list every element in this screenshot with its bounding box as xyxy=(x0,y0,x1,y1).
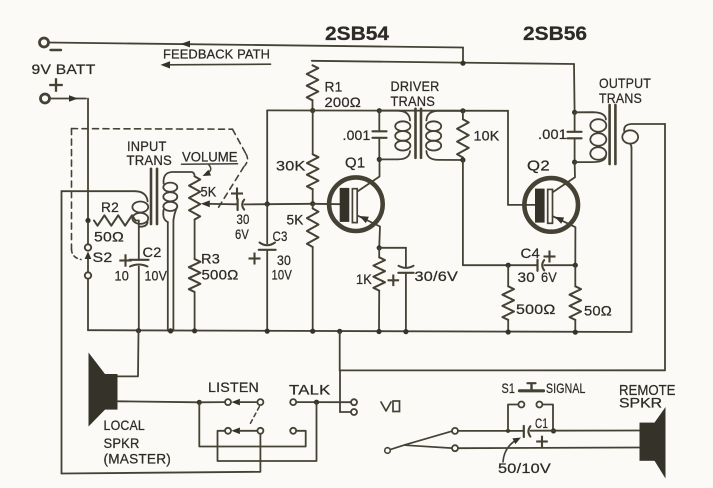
wire: wiper cap to Q1 base node xyxy=(244,203,312,206)
svg-text:LOCAL: LOCAL xyxy=(104,417,146,433)
wire: base node to 5K divider xyxy=(312,204,314,209)
svg-text:10K: 10K xyxy=(474,128,500,144)
wire: R1 bottom to bias line xyxy=(312,100,314,110)
TALK lower contact xyxy=(290,428,296,434)
resistor R1 200 ohm xyxy=(307,65,319,100)
junction dot bus / C2+speaker xyxy=(136,328,141,333)
upper wiper arm xyxy=(240,401,257,403)
feedback path underline arrowhead xyxy=(161,61,171,68)
svg-text:6V: 6V xyxy=(235,226,249,242)
wire: bypass branch down to cap xyxy=(405,248,407,267)
wire: C2 node down to C2 top plate xyxy=(138,227,140,260)
dashed outline top edge xyxy=(72,128,233,131)
remote plug upper terminal xyxy=(452,428,458,434)
svg-text:10V: 10V xyxy=(272,267,293,283)
wire: drop from line B corner to output transformer primary xyxy=(573,64,576,112)
wire: secondary bottom line b to ground bus xyxy=(172,220,174,331)
svg-text:2SB56: 2SB56 xyxy=(523,24,587,45)
junction dot Q2 collector node xyxy=(572,160,577,165)
battery plus sign xyxy=(49,84,63,86)
junction dot bus / remote feed xyxy=(337,329,342,334)
junction dot S1 branch right xyxy=(551,428,556,433)
wire: 1K bottom to ground bus xyxy=(378,291,380,332)
plug symbol sleeve xyxy=(393,401,400,412)
wire: feedback line from battery - to x=463 xyxy=(49,43,464,48)
svg-text:TRANS: TRANS xyxy=(127,153,173,168)
VOLUME underline xyxy=(182,163,238,166)
svg-text:5K: 5K xyxy=(201,184,217,200)
lower wiper arm xyxy=(240,430,257,432)
wire: R2 junction down to S2 xyxy=(87,222,89,244)
svg-text:TRANS: TRANS xyxy=(391,93,436,109)
wire: TALK upper contact to jack xyxy=(296,401,351,403)
Q1 emitter arrowhead (PNP) xyxy=(359,216,369,223)
output transformer secondary top lead xyxy=(624,124,665,133)
wire: secondary bottom line a to ground bus xyxy=(167,222,169,331)
svg-text:SPKR: SPKR xyxy=(619,395,662,411)
svg-text:INPUT: INPUT xyxy=(127,139,167,154)
LISTEN upper contact xyxy=(225,399,231,405)
input transformer primary loop 1 xyxy=(132,202,148,213)
junction dot Q1 collector node xyxy=(377,157,382,162)
wire: bias junction down to 30K xyxy=(312,111,314,155)
wire: return line up left edge xyxy=(61,191,63,473)
capacitor 30/6V bypass top plate (curved) xyxy=(399,266,414,268)
transistor Q1 base bar (filled) xyxy=(340,188,350,222)
capacitor C3 bottom plate xyxy=(259,249,276,251)
driver transformer primary top lead xyxy=(379,111,410,121)
50/10V callout arrowhead xyxy=(512,438,521,445)
lower pivot xyxy=(257,428,263,434)
plus sign (bypass cap polarity) xyxy=(388,279,400,281)
dashed outline lower diagonal xyxy=(218,167,245,210)
junction dot bus / C3 xyxy=(265,329,270,334)
resistor 30K xyxy=(307,154,319,189)
wire: ground bus xyxy=(88,330,632,332)
svg-text:10: 10 xyxy=(115,268,130,284)
battery negative terminal (9V BATT -) xyxy=(40,38,49,47)
junction dot 500 ohm top / C4 left xyxy=(506,263,511,268)
VOLUME callout arrowhead xyxy=(203,170,212,176)
driver transformer secondary top lead xyxy=(426,111,463,121)
svg-text:6V: 6V xyxy=(541,269,557,285)
driver transformer primary loop 1 xyxy=(395,121,410,131)
wire: node down to .001 top plate xyxy=(378,111,380,132)
LISTEN lower contact xyxy=(225,428,231,434)
plus sign (C4 polarity) xyxy=(544,255,556,257)
wire: emitter line (10K bottom run to C4 and Q2 emitter) xyxy=(463,264,537,266)
junction dot Q2 emitter node / 50 ohm top xyxy=(573,263,578,268)
Q1 emitter lead xyxy=(357,216,380,248)
wire: 50 ohm bottom to ground bus xyxy=(574,320,576,332)
pot wiper arrowhead xyxy=(201,200,210,207)
wire: right edge vertical (output secondary to remote line) xyxy=(664,124,666,370)
input transformer secondary loop 3 xyxy=(163,202,177,211)
switch S2 bottom contact xyxy=(85,272,91,278)
svg-text:.001: .001 xyxy=(538,126,567,142)
plus sign (C1 polarity) xyxy=(536,440,548,442)
wire: base node to Q1 base xyxy=(313,203,340,205)
output transformer secondary bottom lead xyxy=(630,144,631,148)
svg-text:30K: 30K xyxy=(276,158,306,174)
wire: supply rail from R1 top to output transformer xyxy=(312,61,574,64)
capacitor .001 (output) top plate xyxy=(568,131,582,133)
svg-text:R2: R2 xyxy=(101,199,119,215)
svg-text:30: 30 xyxy=(518,269,536,285)
wire: battery + to corner xyxy=(50,98,87,100)
svg-text:50Ω: 50Ω xyxy=(584,303,612,319)
wire: lower pivot to return line xyxy=(62,434,261,474)
svg-text:OUTPUT: OUTPUT xyxy=(599,75,651,91)
remote plug fork upper xyxy=(405,431,452,445)
output transformer core bars xyxy=(608,105,611,164)
resistor 50 ohm (Q2) xyxy=(570,286,582,320)
wire: 5K divider bottom to ground bus xyxy=(312,247,314,331)
wire: C3 bottom plate to ground bus xyxy=(266,250,268,331)
transistor Q2 inner bar (open) xyxy=(548,189,553,223)
transistor Q2 circle xyxy=(524,178,578,232)
wire: remote lower line xyxy=(458,447,640,450)
driver transformer core bars xyxy=(414,109,417,158)
wire: bypass cap to ground bus xyxy=(405,273,407,332)
switch S2 blade xyxy=(87,256,89,273)
junction dot 10K bottom / driver secondary bottom xyxy=(460,157,465,162)
svg-text:30/6V: 30/6V xyxy=(415,268,459,284)
wire: node down to right .001 top plate xyxy=(574,112,576,132)
capacitor C1 right plate (curved) xyxy=(528,426,530,436)
wire: 500 ohm top lead xyxy=(507,265,509,286)
jack upper terminal xyxy=(351,399,357,405)
wire: S2 to ground bus left end xyxy=(87,279,89,330)
svg-text:C2: C2 xyxy=(143,244,162,260)
remote plug lower terminal xyxy=(452,445,458,451)
wire: bias line (R1 bottom to Q2 base corner) xyxy=(267,109,508,111)
junction dot R1 / bias line xyxy=(310,108,315,113)
svg-text:(MASTER): (MASTER) xyxy=(104,451,172,467)
junction dot bus / 50 ohm xyxy=(573,330,578,335)
wire: C3 branch down to C3 top plate xyxy=(266,204,268,244)
driver transformer secondary bottom lead xyxy=(426,151,463,160)
50/10V callout arrow line xyxy=(503,440,517,463)
wire: drop from feedback line to supply line B xyxy=(462,48,464,64)
remote plug tail circle xyxy=(385,448,391,454)
dashed outline curve to S2 xyxy=(72,249,82,260)
capacitor 30/6V wiper left plate xyxy=(237,199,239,210)
svg-text:30: 30 xyxy=(237,211,250,227)
svg-text:Q2: Q2 xyxy=(527,159,550,175)
junction dot bus / R3 xyxy=(192,328,197,333)
capacitor C3 top plate (curved) xyxy=(260,243,276,246)
transistor Q1 circle xyxy=(329,177,383,231)
svg-text:TALK: TALK xyxy=(289,382,331,398)
dashed outline point arc xyxy=(245,154,248,166)
resistor 10K xyxy=(457,119,469,157)
remote speaker cone (filled) xyxy=(655,407,666,479)
resistor 500 ohm (Q2) xyxy=(502,286,514,320)
junction dot speaker line / talk-lower-link xyxy=(197,400,202,405)
input transformer secondary top lead xyxy=(164,172,195,184)
upper wiper arrowhead xyxy=(231,399,240,406)
wire: bias line corner down to wiper line xyxy=(266,110,268,204)
resistor 5K (divider) xyxy=(307,209,319,248)
capacitor C1 left plate xyxy=(523,426,525,437)
svg-text:S1: S1 xyxy=(502,380,516,396)
svg-text:200Ω: 200Ω xyxy=(325,94,362,110)
Q2 emitter lead xyxy=(553,216,576,265)
feedback path underline arrow line xyxy=(168,63,271,66)
wire: bus down to local speaker top terminal xyxy=(118,331,139,377)
input transformer primary bottom lead xyxy=(139,222,148,227)
wire: output secondary bottom to ground bus corner xyxy=(631,148,633,332)
junction dot bias line / .001 / driver primary top xyxy=(377,108,382,113)
capacitor .001 (driver) top plate xyxy=(373,130,387,132)
wire: pot bottom to R3 xyxy=(194,220,196,260)
pushbutton S1 cap xyxy=(528,382,536,384)
pushbutton S1 bar xyxy=(520,389,544,392)
wire: remote line down to jack xyxy=(339,370,341,412)
svg-text:2SB54: 2SB54 xyxy=(325,24,389,45)
wire: bias line corner down to Q2 base xyxy=(507,111,509,205)
S1 branch right riser xyxy=(542,405,553,431)
pushbutton S1 stem xyxy=(530,384,532,390)
TALK upper contact xyxy=(290,399,296,405)
svg-text:R1: R1 xyxy=(325,79,343,95)
svg-text:500Ω: 500Ω xyxy=(516,301,556,317)
input transformer secondary loop 1 xyxy=(163,183,177,192)
wire: .001 bottom plate to collector node xyxy=(378,138,380,160)
wire: 10K bottom down to emitter line xyxy=(462,160,464,265)
remote speaker driver (filled) xyxy=(640,423,655,461)
svg-text:S2: S2 xyxy=(93,249,113,265)
capacitor C4 left plate xyxy=(536,260,538,271)
svg-text:C4: C4 xyxy=(521,245,541,261)
plus sign (C3 polarity) xyxy=(249,257,261,259)
S1 left contact xyxy=(518,402,524,408)
input transformer secondary loop 2 xyxy=(163,192,177,201)
S1 right contact xyxy=(536,402,542,408)
svg-text:VOLUME: VOLUME xyxy=(182,150,238,165)
input transformer secondary bottom lead a xyxy=(163,210,168,222)
resistor R3 500 ohm xyxy=(189,259,201,292)
junction dot Q1 emitter / 1K / bypass cap xyxy=(377,245,382,250)
wire: TALK lower contact link to speaker line xyxy=(199,402,305,446)
battery positive terminal (9V BATT +) xyxy=(41,94,50,103)
driver transformer primary loop 3 xyxy=(395,141,410,151)
wire: C2 bottom plate to ground bus xyxy=(138,267,140,331)
svg-text:DRIVER: DRIVER xyxy=(391,78,440,94)
wire: C4 right plate to Q2 emitter node xyxy=(544,264,575,266)
wire: bus drop to remote line xyxy=(339,331,341,370)
Q2 emitter arrowhead (PNP) xyxy=(555,217,565,224)
transistor Q2 base bar (filled) xyxy=(535,189,545,223)
lower wiper arrowhead xyxy=(231,428,240,435)
svg-text:10V: 10V xyxy=(145,268,168,284)
arrowhead on feedback wire (points left) xyxy=(181,41,191,48)
wire: local speaker bottom terminal to LISTEN switch xyxy=(118,401,200,402)
junction dot supply drop / .001 / output primary top xyxy=(572,110,577,115)
junction dot at R2 left xyxy=(85,218,90,223)
wire: emitter node to 1K xyxy=(378,248,380,257)
svg-text:FEEDBACK PATH: FEEDBACK PATH xyxy=(163,47,270,62)
wire: remote upper line (to C1) xyxy=(458,430,523,432)
capacitor C4 right plate (curved) xyxy=(542,260,544,270)
local speaker cone (filled) xyxy=(89,353,106,427)
svg-text:50Ω: 50Ω xyxy=(94,229,124,245)
junction: S1 branch left xyxy=(506,429,510,433)
input transformer secondary bottom lead b xyxy=(173,209,176,220)
wire: 50 ohm top lead xyxy=(574,265,576,286)
svg-text:TRANS: TRANS xyxy=(599,90,642,106)
output transformer secondary loop xyxy=(622,130,638,143)
wire: remote line to right edge xyxy=(340,369,665,371)
svg-text:C1: C1 xyxy=(535,415,548,431)
wire: C1 to remote speaker top xyxy=(531,430,640,432)
Q1 collector lead xyxy=(357,159,379,191)
svg-text:SPKR: SPKR xyxy=(104,435,140,451)
capacitor 30/6V bypass bottom plate xyxy=(398,272,413,274)
mechanical link (dashed) xyxy=(249,407,259,427)
driver transformer primary loop 2 xyxy=(395,131,410,141)
dashed outline left edge xyxy=(71,129,73,249)
junction dot bias line / 10K top xyxy=(460,108,465,113)
svg-text:5K: 5K xyxy=(287,212,304,228)
wire: 30K bottom to base node xyxy=(312,189,314,203)
svg-text:R3: R3 xyxy=(201,250,220,266)
capacitor 30/6V wiper right plate (curved) xyxy=(242,200,244,210)
svg-text:500Ω: 500Ω xyxy=(202,267,239,283)
wire: down from battery + corner to R2 xyxy=(87,99,89,221)
input transformer core bars xyxy=(150,169,153,224)
wire: right .001 bottom plate to Q2 collector node xyxy=(574,138,576,162)
svg-text:Q1: Q1 xyxy=(345,156,366,172)
junction dot bus / 5K divider xyxy=(310,329,315,334)
junction dot bus / input secondary xyxy=(168,328,173,333)
switch S2 top contact xyxy=(85,244,91,250)
plus sign (C2 polarity) xyxy=(119,259,131,261)
junction dot Q1 base node xyxy=(310,201,315,206)
wire: return line to input transformer primary top xyxy=(62,190,136,192)
wire: wiper to series capacitor xyxy=(210,203,237,205)
resistor 1K xyxy=(373,257,385,290)
capacitor C2 top plate xyxy=(130,259,149,261)
VOLUME callout arrow line xyxy=(207,165,211,174)
upper pivot xyxy=(257,399,263,405)
driver transformer secondary loop 3 xyxy=(426,141,441,151)
wire: Q2 base lead xyxy=(508,204,535,206)
junction dot bus / 1K xyxy=(376,329,381,334)
junction dot wiper line / C3 branch xyxy=(265,201,270,206)
dashed outline right diagonal xyxy=(233,129,247,154)
output transformer primary loop 1 xyxy=(590,119,606,132)
wire: emitter node to bypass cap branch xyxy=(379,247,406,249)
transistor Q1 inner bar (open) xyxy=(352,189,357,223)
wire: 500 ohm bottom to ground bus xyxy=(507,320,509,332)
capacitor .001 (driver) bottom plate xyxy=(373,137,387,139)
output transformer primary bottom lead xyxy=(575,156,606,162)
jack lower terminal xyxy=(351,409,357,415)
driver transformer primary bottom lead xyxy=(379,151,410,159)
resistor R2 50 ohm (horizontal) xyxy=(94,215,136,225)
svg-text:50/10V: 50/10V xyxy=(498,460,552,476)
Q2 collector lead xyxy=(553,162,575,192)
switch S2 blade arrowhead xyxy=(85,252,92,260)
wire: jack lower terminal to bus drop xyxy=(340,411,351,413)
svg-text:9V BATT: 9V BATT xyxy=(32,61,96,77)
junction dot bus / bypass cap xyxy=(403,329,408,334)
wire: R3 bottom to ground bus xyxy=(194,292,196,331)
wire: R2 right lead to C2 node xyxy=(136,220,139,222)
potentiometer 5K (volume) xyxy=(189,176,200,219)
input transformer primary loop 2 xyxy=(132,213,148,224)
junction dot talk line / lower link xyxy=(314,400,319,405)
input transformer primary top lead xyxy=(135,191,148,201)
plus sign (wiper cap polarity) xyxy=(231,192,243,194)
arrowhead on battery + wire (points right) xyxy=(69,95,78,102)
output transformer primary loop 3 xyxy=(590,147,606,160)
svg-text:C3: C3 xyxy=(273,228,288,244)
battery minus sign xyxy=(51,49,62,51)
remote plug fork lower xyxy=(405,445,452,448)
plug symbol V xyxy=(381,402,391,411)
local speaker driver (filled) xyxy=(105,374,118,410)
svg-text:.001: .001 xyxy=(343,127,371,143)
svg-text:SIGNAL: SIGNAL xyxy=(546,380,586,396)
remote plug tail xyxy=(390,445,405,450)
capacitor .001 (output) bottom plate xyxy=(568,137,582,139)
driver transformer secondary loop 1 xyxy=(426,121,441,131)
svg-text:LISTEN: LISTEN xyxy=(208,379,259,395)
wire: 10K top lead xyxy=(462,111,464,120)
driver transformer secondary loop 2 xyxy=(426,131,441,141)
wire: speaker line to LISTEN contact xyxy=(199,401,225,403)
wire: LISTEN lower contact to link xyxy=(218,402,317,461)
output transformer primary top lead xyxy=(575,112,606,119)
output transformer primary loop 2 xyxy=(590,133,606,146)
junction dot line A / line B xyxy=(460,61,465,66)
svg-text:1K: 1K xyxy=(356,271,372,287)
S1 branch left riser xyxy=(508,405,518,431)
capacitor C2 bottom plate (curved) xyxy=(130,265,148,267)
junction dot bus / 500 ohm xyxy=(506,329,511,334)
